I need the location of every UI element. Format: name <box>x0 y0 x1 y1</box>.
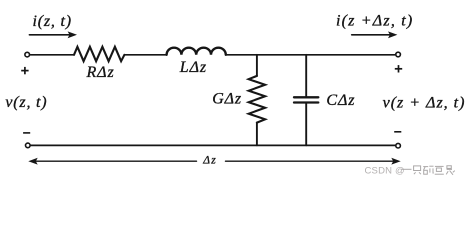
svg-text:i(z, t): i(z, t) <box>33 13 72 30</box>
svg-text:GΔz: GΔz <box>212 91 242 108</box>
svg-text:v(z, t): v(z, t) <box>5 94 47 111</box>
svg-text:v(z + Δz, t): v(z + Δz, t) <box>383 95 466 112</box>
svg-text:i(z +Δz, t): i(z +Δz, t) <box>336 13 413 30</box>
svg-text:CΔz: CΔz <box>326 92 355 109</box>
svg-text:Δz: Δz <box>202 155 217 167</box>
svg-text:CSDN @: CSDN @ <box>365 165 405 176</box>
svg-text:LΔz: LΔz <box>179 59 207 76</box>
svg-text:RΔz: RΔz <box>86 64 115 81</box>
